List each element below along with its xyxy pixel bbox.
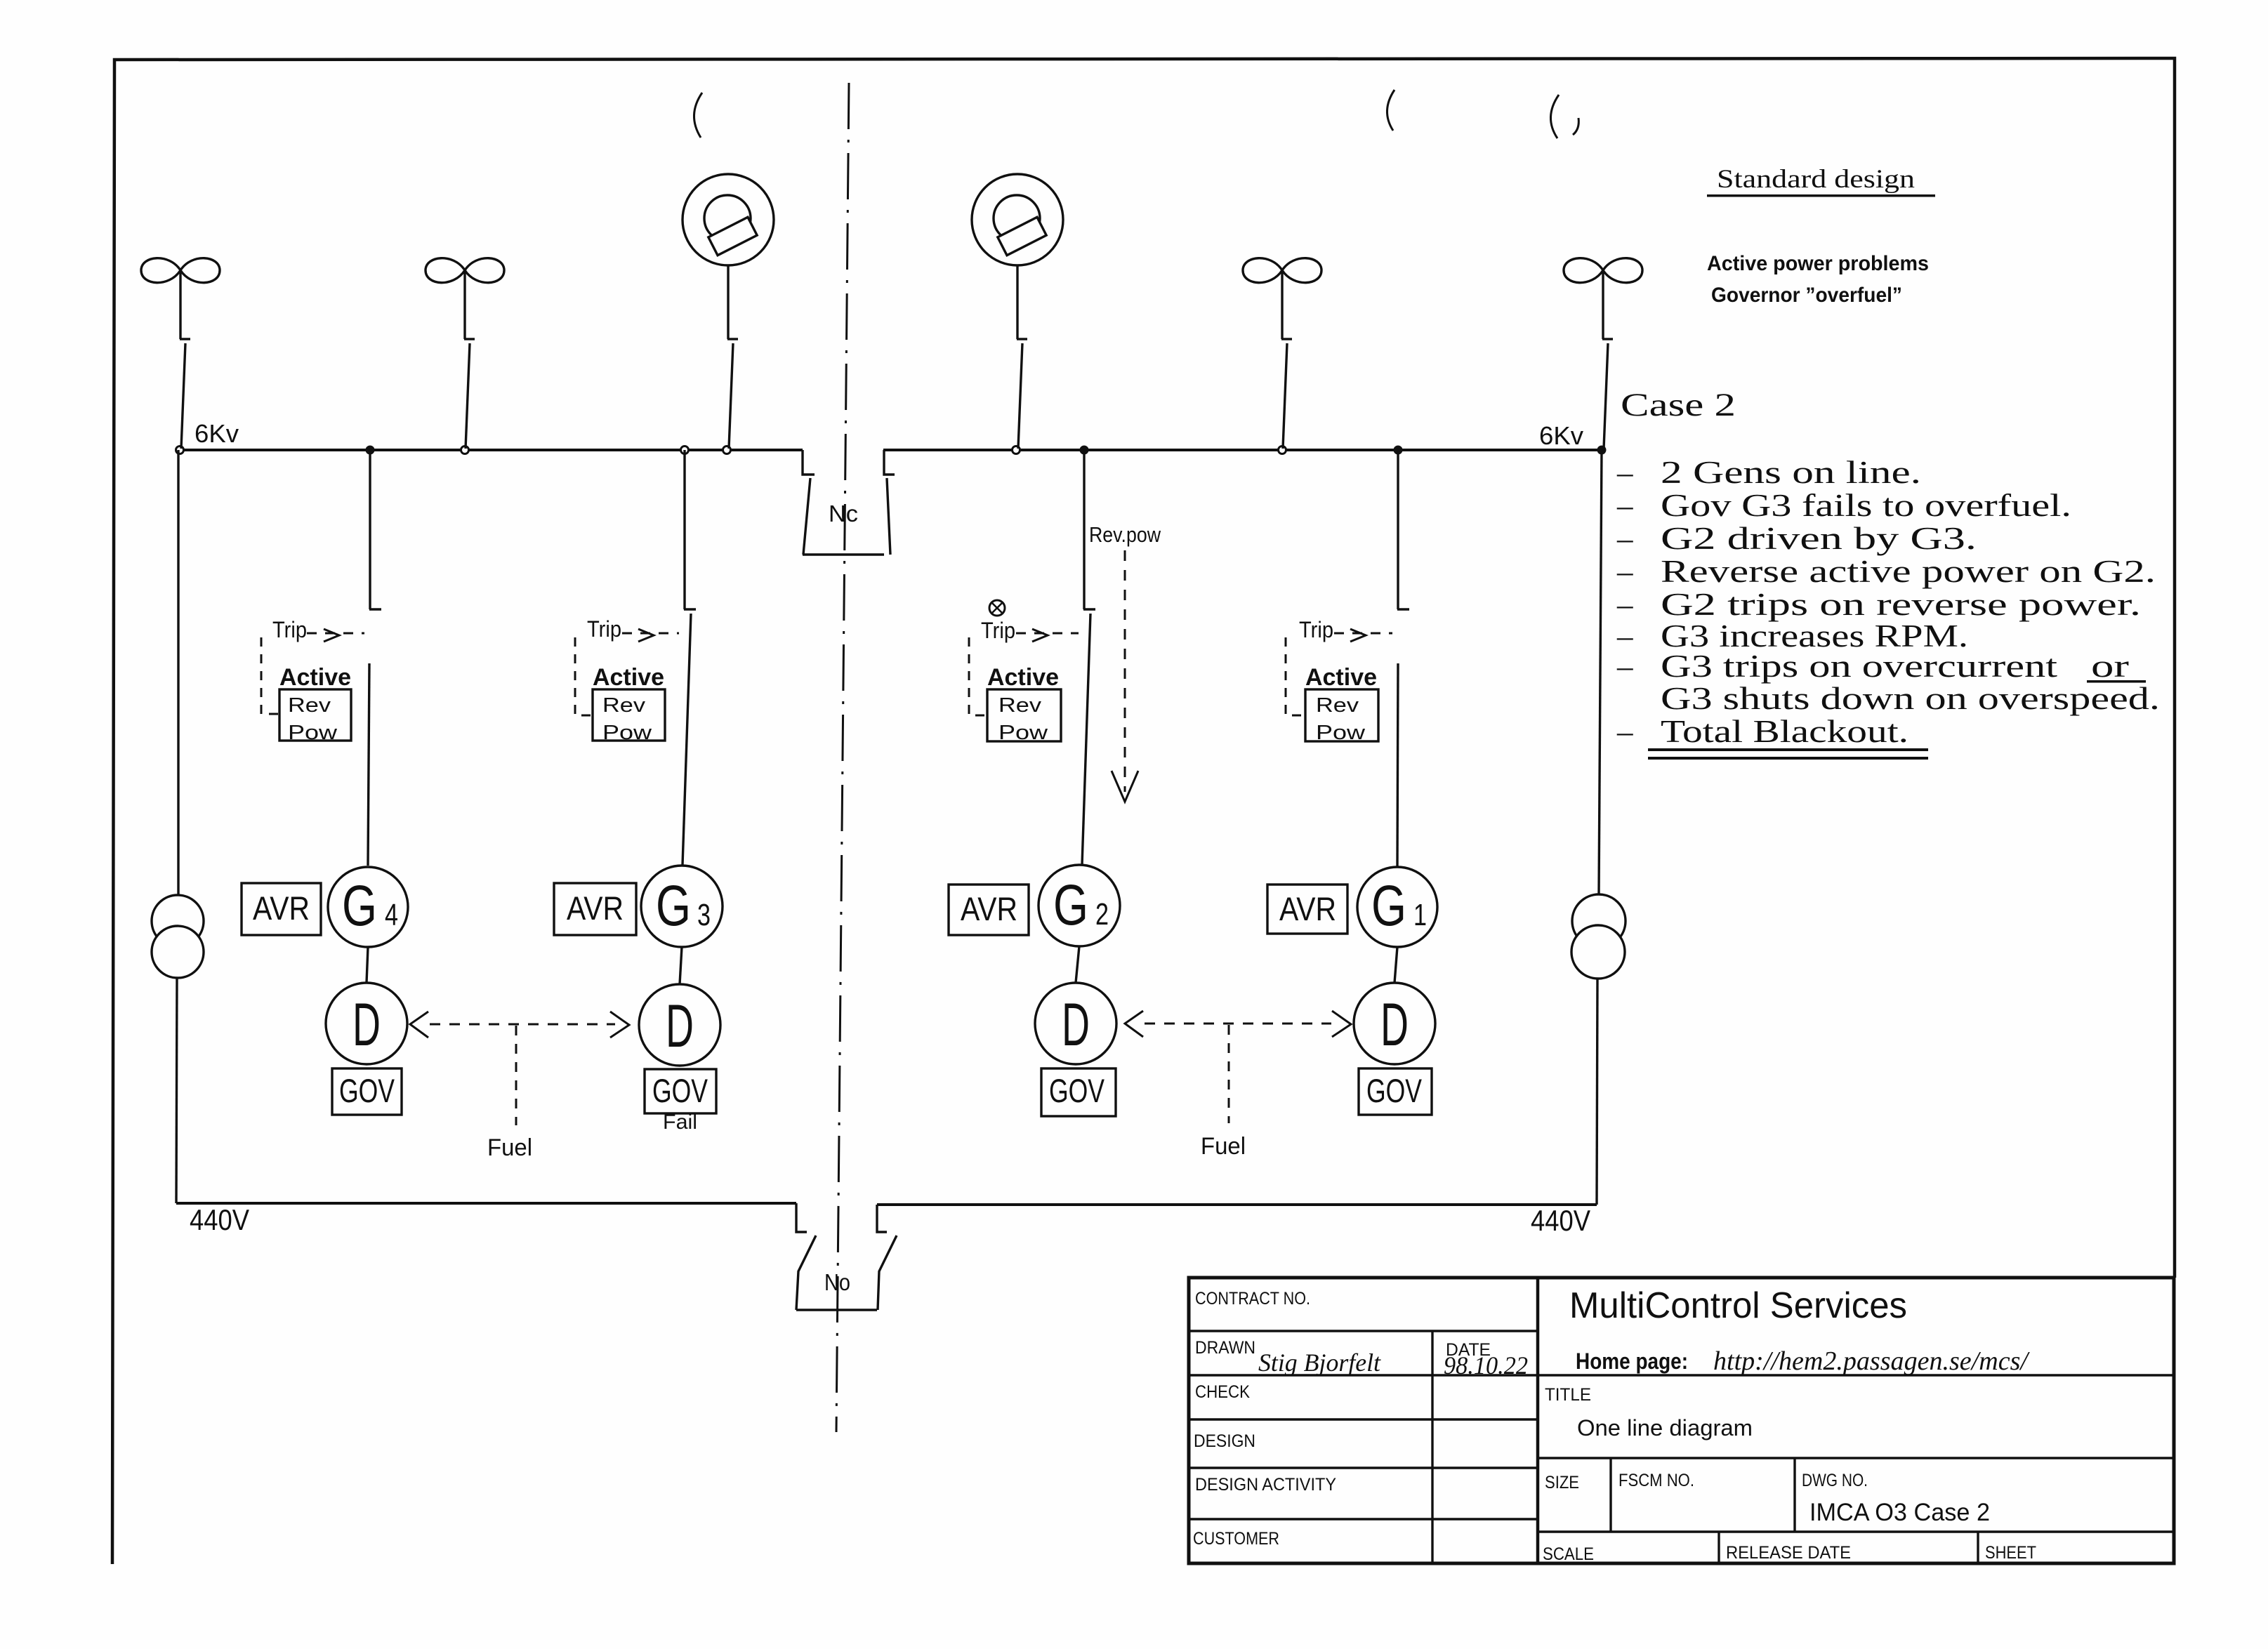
svg-text:Rev: Rev [288,694,331,717]
motor load M2 [972,174,1063,265]
svg-text:SIZE: SIZE [1545,1473,1579,1492]
wire P3 to breaker [1281,272,1283,339]
svg-text:GOV: GOV [339,1072,395,1109]
svg-text:Pow: Pow [1316,722,1366,744]
label DESIGN [1194,1431,1255,1451]
wire bus to breaker G3 [683,450,685,609]
svg-text:Case 2: Case 2 [1621,387,1736,423]
svg-text:G2 driven by G3.: G2 driven by G3. [1661,521,1977,556]
svg-text:Fail: Fail [663,1111,697,1134]
relay box Rev Pow G3 [593,689,665,741]
svg-text:–: – [1616,554,1633,589]
scan artifact arc 2 [1387,90,1395,131]
generator G4 [328,867,408,947]
label Pow G4 [288,722,338,744]
svg-text:AVR: AVR [1279,890,1336,927]
wire G2 to D2 [1076,946,1079,983]
svg-text:–: – [1616,521,1633,556]
label Rev G1 [1316,694,1359,717]
label Trip G3 [587,616,621,642]
relay box Rev Pow G4 [279,689,351,741]
svg-text:Fuel: Fuel [1201,1133,1246,1160]
governor box GOV4 [332,1068,402,1115]
reverse power arrow [1112,550,1138,802]
svg-text:DESIGN: DESIGN [1194,1431,1255,1451]
svg-text:CUSTOMER: CUSTOMER [1193,1529,1279,1549]
wire bus to breaker G1 [1397,450,1399,609]
label Rev G4 [288,694,331,717]
svg-text:Fuel: Fuel [487,1134,532,1161]
svg-text:–: – [1616,649,1633,684]
label G3 [656,874,711,938]
label Fuel right [1201,1133,1246,1160]
node propeller P2 tap [461,446,469,454]
svg-text:4: 4 [385,898,398,932]
label 440V left [190,1203,249,1236]
label 6Kv left [195,419,239,448]
svg-text:Active: Active [1305,664,1377,691]
svg-text:G: G [342,874,377,938]
wire P1 to breaker [179,272,181,339]
governor box GOV3 [645,1069,716,1113]
label D3 [666,993,694,1060]
svg-text:Total Blackout.: Total Blackout. [1661,714,1908,749]
svg-text:D: D [666,993,694,1060]
label GOV2 [1049,1072,1105,1109]
label Pow G3 [602,722,652,744]
case notes list [1616,455,2160,760]
svg-text:Reverse active power on G2.: Reverse active power on G2. [1661,554,2156,589]
node G4 tap [367,446,374,453]
svg-text:440V: 440V [1531,1204,1590,1237]
transformer T1 left [152,450,204,1203]
label No [824,1269,850,1295]
svg-text:RELEASE DATE: RELEASE DATE [1726,1543,1851,1563]
svg-text:or: or [2091,649,2129,684]
label Trip G1 [1299,617,1333,642]
svg-text:IMCA O3 Case 2: IMCA O3 Case 2 [1809,1499,1990,1526]
label AVR G4 [253,889,310,927]
label 6Kv right [1539,421,1583,450]
AVR box G4 [242,883,321,935]
breaker P2 (closed) [464,339,475,449]
node G3 tap [681,446,689,454]
label Active G4 [279,664,351,691]
svg-text:6Kv: 6Kv [1539,421,1583,450]
breaker P1 (closed) [180,339,190,449]
note Governor overfuel [1711,284,1902,307]
wire bus to breaker G2 [1083,450,1085,609]
wire P4 to breaker [1602,272,1604,339]
svg-text:DWG NO.: DWG NO. [1802,1471,1868,1490]
svg-text:440V: 440V [190,1203,249,1236]
svg-text:AVR: AVR [567,889,624,927]
value drawn by Stig Bjorfelt [1258,1349,1381,1377]
bus-tie breaker Nc [803,450,895,555]
wire M1 to breaker [727,265,729,339]
trip lamp G2 [989,600,1005,616]
svg-text:G3 trips on overcurrent: G3 trips on overcurrent [1661,649,2058,684]
motor load M1 [683,174,774,265]
label GOV4 [339,1072,395,1109]
svg-text:Governor ”overfuel”: Governor ”overfuel” [1711,284,1902,307]
label Trip G2 [981,618,1015,643]
label FSCM NO. [1618,1471,1694,1490]
svg-text:No: No [824,1269,850,1295]
svg-text:Active: Active [279,664,351,691]
svg-text:Pow: Pow [602,722,652,744]
breaker G4 (open) [368,609,381,866]
propeller load P2 [426,258,504,283]
label Fuel left [487,1134,532,1161]
label AVR G3 [567,889,624,927]
relay box Rev Pow G2 [987,689,1061,741]
breaker M1 (closed) [727,339,738,449]
heading Case 2 [1621,387,1736,423]
svg-text:FSCM NO.: FSCM NO. [1618,1471,1694,1490]
wire G3 to D3 [680,947,682,984]
label SIZE [1545,1473,1579,1492]
svg-text:Active: Active [987,664,1059,691]
label D2 [1062,991,1090,1059]
svg-text:–: – [1616,488,1633,523]
svg-text:AVR: AVR [253,889,310,927]
busbar 440V left section [176,1202,796,1205]
trip arrow G3 [575,629,679,715]
svg-text:G: G [1053,873,1088,937]
svg-text:DRAWN: DRAWN [1195,1338,1255,1358]
svg-text:D: D [1062,991,1090,1059]
label AVR G1 [1279,890,1336,927]
label DRAWN [1195,1338,1255,1358]
diesel engine D2 [1035,983,1116,1064]
node G1 tap [1395,446,1402,453]
label GOV1 [1366,1072,1422,1109]
svg-text:GOV: GOV [1366,1072,1422,1109]
AVR box G2 [949,885,1029,935]
svg-text:GOV: GOV [1049,1072,1105,1109]
label G1 [1371,874,1427,938]
note Active power problems [1707,252,1929,275]
label D4 [352,991,381,1059]
label G2 [1053,873,1109,937]
breaker M2 (closed) [1017,339,1027,449]
label Nc [829,501,858,527]
label Rev G3 [602,694,646,717]
label Active G1 [1305,664,1377,691]
label TITLE [1545,1385,1591,1405]
propeller load P3 [1243,258,1321,283]
breaker G2 (closed) [1082,609,1095,865]
wire M2 to breaker [1016,265,1018,339]
svg-text:1: 1 [1413,898,1427,932]
svg-text:G: G [1371,874,1406,938]
svg-text:DESIGN ACTIVITY: DESIGN ACTIVITY [1195,1475,1336,1495]
label Rev G2 [998,694,1042,717]
value date 98.10.22 [1444,1351,1528,1379]
svg-text:Pow: Pow [998,722,1048,744]
svg-text:D: D [1380,991,1409,1059]
svg-text:–: – [1616,714,1633,749]
trip arrow G2 [969,629,1079,715]
node propeller P3 tap [1279,446,1286,454]
scan artifact arc 3 [1550,95,1578,138]
svg-text:One line diagram: One line diagram [1577,1415,1753,1441]
label Fail [663,1111,697,1134]
diesel engine D1 [1354,983,1435,1064]
diesel engine D3 [639,984,720,1066]
wire P2 to breaker [463,272,466,339]
svg-text:Trip: Trip [272,617,307,642]
label Trip G4 [272,617,307,642]
diesel engine D4 [326,983,407,1064]
breaker G1 (open) [1397,609,1409,866]
fuel link D4-D3 [410,1012,629,1125]
breaker P3 (closed) [1281,339,1292,449]
centre section divider line [836,83,849,1432]
company name MultiControl Services [1569,1285,1907,1326]
svg-text:Active power problems: Active power problems [1707,252,1929,275]
svg-text:Nc: Nc [829,501,858,527]
svg-text:SCALE: SCALE [1543,1544,1594,1564]
svg-text:TITLE: TITLE [1545,1385,1591,1405]
trip arrow G1 [1286,629,1392,715]
svg-text:Rev: Rev [998,694,1042,717]
svg-text:Trip: Trip [587,616,621,642]
node bus left end [176,446,184,454]
label CUSTOMER [1193,1529,1279,1549]
title block frame [1189,1278,2174,1563]
label RELEASE DATE [1726,1543,1851,1563]
busbar 440V right section [877,1203,1597,1206]
svg-text:G: G [656,874,691,938]
label Active G2 [987,664,1059,691]
svg-text:G2 trips on reverse power.: G2 trips on reverse power. [1661,587,2141,622]
generator G2 [1039,865,1120,946]
generator G3 [641,866,723,947]
label Pow G2 [998,722,1048,744]
svg-text:Rev.pow: Rev.pow [1089,522,1161,547]
fuel link D2-D1 [1125,1011,1351,1123]
transformer T2 right [1571,450,1626,1205]
title One line diagram [1577,1415,1753,1441]
node G2 tap [1081,446,1088,453]
svg-text:Pow: Pow [288,722,338,744]
label SCALE [1543,1544,1594,1564]
wire G4 to D4 [367,947,368,983]
svg-text:–: – [1616,455,1633,490]
busbar 6Kv right section [883,449,1602,451]
svg-text:2: 2 [1095,897,1109,932]
node motor M2 tap [1013,446,1020,454]
node motor M1 tap [723,446,731,454]
svg-text:Standard design: Standard design [1717,165,1915,194]
label DWG NO. [1802,1471,1868,1490]
svg-text:G3 shuts down on overspeed.: G3 shuts down on overspeed. [1661,681,2160,716]
svg-text:MultiControl Services: MultiControl Services [1569,1285,1907,1326]
svg-text:98.10.22: 98.10.22 [1444,1351,1528,1379]
svg-text:CONTRACT NO.: CONTRACT NO. [1195,1289,1310,1309]
heading Standard design [1707,165,1935,197]
propeller load P1 [141,258,220,283]
svg-text:2 Gens on line.: 2 Gens on line. [1661,455,1921,490]
relay box Rev Pow G1 [1305,689,1378,741]
svg-text:3: 3 [697,898,711,932]
svg-text:Rev: Rev [602,694,646,717]
label Active G3 [593,664,664,691]
svg-text:http://hem2.passagen.se/mcs/: http://hem2.passagen.se/mcs/ [1713,1346,2030,1376]
label Pow G1 [1316,722,1366,744]
label SHEET [1985,1543,2036,1563]
svg-text:AVR: AVR [961,890,1017,927]
svg-text:Active: Active [593,664,664,691]
governor box GOV2 [1041,1068,1116,1116]
svg-text:Home page:: Home page: [1576,1349,1688,1374]
bus-tie breaker No (open) [796,1203,897,1310]
trip arrow G4 [261,629,364,714]
dwg no IMCA 03 Case 2 [1809,1499,1990,1526]
svg-text:Rev: Rev [1316,694,1359,717]
svg-text:CHECK: CHECK [1195,1382,1250,1402]
label DESIGN ACTIVITY [1195,1475,1336,1495]
AVR box G1 [1267,885,1347,934]
svg-text:Stig Bjorfelt: Stig Bjorfelt [1258,1349,1381,1377]
label CONTRACT NO. [1195,1289,1310,1309]
svg-text:Trip: Trip [981,618,1015,643]
propeller load P4 [1564,258,1642,283]
svg-text:GOV: GOV [652,1072,708,1109]
label Rev.pow [1089,522,1161,547]
label DATE [1446,1340,1491,1360]
busbar 6Kv left section [180,449,803,451]
node bus right end [1598,446,1605,453]
label GOV3 [652,1072,708,1109]
label D1 [1380,991,1409,1059]
home page line [1576,1346,2030,1376]
wire bus to breaker G4 [369,450,371,609]
svg-text:Gov G3 fails to overfuel.: Gov G3 fails to overfuel. [1661,488,2071,523]
wire G1 to D1 [1395,947,1397,983]
label G4 [342,874,398,938]
breaker G3 (closed) [683,609,696,865]
label CHECK [1195,1382,1250,1402]
label 440V right [1531,1204,1590,1237]
governor box GOV1 [1359,1068,1432,1115]
breaker P4 (closed) [1602,339,1613,449]
generator G1 [1357,867,1437,947]
svg-text:6Kv: 6Kv [195,419,239,448]
scan artifact arc 1 [694,93,702,138]
svg-text:D: D [352,991,381,1059]
svg-text:SHEET: SHEET [1985,1543,2036,1563]
svg-text:–: – [1616,587,1633,622]
label AVR G2 [961,890,1017,927]
svg-text:Trip: Trip [1299,617,1333,642]
AVR box G3 [554,883,636,935]
